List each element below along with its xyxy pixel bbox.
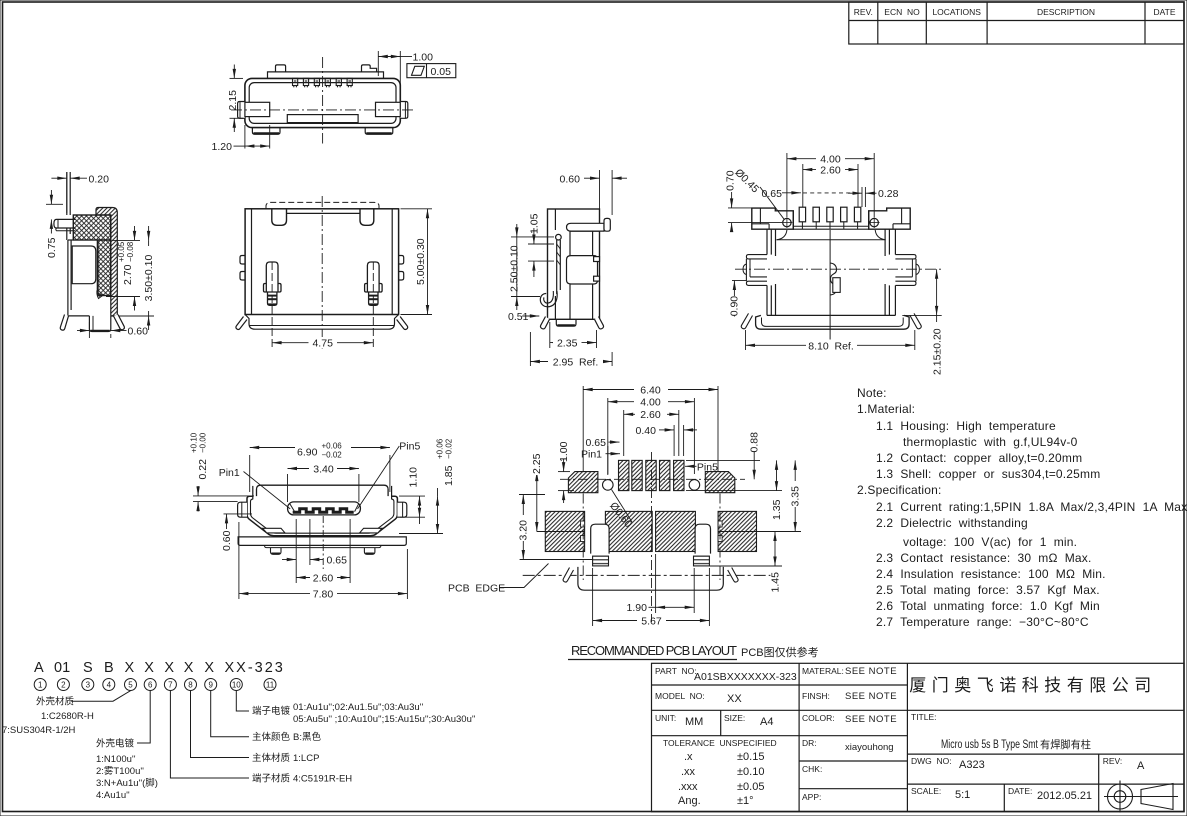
solder tail bbox=[89, 316, 110, 332]
svg-text:1.05: 1.05 bbox=[528, 213, 540, 234]
svg-text:PCB图仅供参考: PCB图仅供参考 bbox=[741, 645, 819, 659]
svg-text:thermoplastic with g.f,UL94v: thermoplastic with g.f,UL94v-0 bbox=[903, 435, 1078, 449]
middle pads bbox=[545, 511, 756, 551]
svg-text:1.90: 1.90 bbox=[627, 602, 648, 614]
dimension 2.25 bbox=[536, 472, 538, 532]
side notch right bbox=[399, 256, 404, 265]
svg-text:主体材质: 主体材质 bbox=[252, 752, 291, 764]
svg-text:SIZE:: SIZE: bbox=[724, 713, 745, 723]
svg-text:0.05: 0.05 bbox=[431, 66, 452, 78]
svg-text:1: 1 bbox=[38, 681, 43, 690]
svg-text:SEE NOTE: SEE NOTE bbox=[845, 666, 897, 677]
svg-text:4.00: 4.00 bbox=[640, 397, 661, 409]
center line view5 bbox=[735, 268, 941, 270]
dimension 1.45 bbox=[709, 532, 782, 567]
svg-text:Ø0.45: Ø0.45 bbox=[732, 167, 761, 196]
svg-text:2.95 Ref.: 2.95 Ref. bbox=[553, 357, 599, 369]
svg-text:1.20: 1.20 bbox=[212, 141, 233, 153]
latch bump bbox=[567, 256, 598, 284]
mid reference lines bbox=[520, 532, 801, 560]
pin stub bbox=[567, 223, 605, 231]
note text bbox=[857, 386, 1187, 629]
dimension 6.90 +0.06/-0.02 bbox=[250, 448, 390, 493]
bottom plate bbox=[767, 314, 895, 316]
flatness tolerance box bbox=[407, 64, 456, 78]
hole left bbox=[603, 480, 614, 491]
svg-text:1.Material:: 1.Material: bbox=[857, 402, 915, 416]
svg-text:2.7 Temperature range: −30°: 2.7 Temperature range: −30°C~80°C bbox=[876, 615, 1089, 629]
svg-text:10: 10 bbox=[232, 681, 241, 690]
shell top plate bbox=[257, 485, 389, 496]
dimension 3.20 bbox=[519, 495, 545, 560]
svg-text:A4: A4 bbox=[760, 716, 773, 728]
svg-text:0.88: 0.88 bbox=[749, 432, 761, 453]
svg-text:3.40: 3.40 bbox=[313, 464, 334, 476]
svg-text:Pin1: Pin1 bbox=[581, 449, 602, 461]
svg-text:Pin5: Pin5 bbox=[399, 441, 420, 453]
dimension 0.65 (view5) bbox=[782, 192, 860, 194]
svg-text:DATE:: DATE: bbox=[1008, 786, 1032, 796]
svg-text:±0.10: ±0.10 bbox=[737, 766, 764, 778]
dimension 3.40 bbox=[288, 469, 359, 503]
left bottom leg bbox=[60, 315, 68, 331]
svg-text:Pin5: Pin5 bbox=[697, 462, 718, 474]
terminal lead bbox=[66, 172, 68, 215]
svg-text:外壳材质: 外壳材质 bbox=[36, 696, 75, 708]
side notch left bbox=[240, 256, 245, 265]
center lines view7 bbox=[560, 452, 745, 622]
dimension 1.05 bbox=[528, 228, 554, 277]
inner right pad bbox=[376, 102, 401, 116]
svg-text:voltage: 100 V(ac) for 1: voltage: 100 V(ac) for 1 min. bbox=[903, 535, 1077, 549]
svg-text:2.5 Total mating force: 3.: 2.5 Total mating force: 3.57 Kgf Max. bbox=[876, 583, 1100, 597]
bottom curl bbox=[540, 291, 557, 307]
svg-text:±0.15: ±0.15 bbox=[737, 751, 764, 763]
left ear bbox=[746, 255, 767, 286]
svg-text:0.90: 0.90 bbox=[729, 296, 741, 317]
svg-text:0.22: 0.22 bbox=[197, 459, 209, 480]
svg-text:A323: A323 bbox=[959, 759, 985, 771]
svg-text:±1°: ±1° bbox=[737, 795, 754, 807]
pin pads (5) bbox=[619, 460, 685, 490]
PCB edge dash-dot bbox=[523, 574, 771, 576]
svg-text:05:Au5u'' ;10:Au10u'';15:Au15u: 05:Au5u'' ;10:Au10u'';15:Au15u'';30:Au30… bbox=[293, 714, 476, 725]
svg-text:Note:: Note: bbox=[857, 386, 887, 400]
top flange band bbox=[752, 208, 794, 229]
dimension 0.40 bbox=[659, 425, 697, 456]
5 contact slots bbox=[799, 207, 861, 229]
body outline bbox=[245, 209, 399, 315]
right ear bbox=[895, 255, 916, 286]
top view body outline bbox=[245, 78, 400, 127]
legend leader lines bbox=[71, 691, 249, 778]
leg phantoms (white brackets) bbox=[591, 524, 609, 553]
svg-text:REV.: REV. bbox=[854, 7, 873, 17]
svg-text:1.85: 1.85 bbox=[443, 465, 455, 486]
svg-text:0.40: 0.40 bbox=[636, 425, 657, 437]
svg-text:PCB EDGE: PCB EDGE bbox=[448, 583, 505, 595]
svg-text:SEE NOTE: SEE NOTE bbox=[845, 714, 897, 725]
dimension 0.75 bbox=[46, 190, 63, 234]
bottom plate bbox=[245, 315, 399, 330]
svg-text:外壳电镀: 外壳电镀 bbox=[96, 738, 135, 750]
svg-text:6: 6 bbox=[148, 681, 153, 690]
svg-text:COLOR:: COLOR: bbox=[802, 713, 835, 723]
corner leg right bbox=[397, 317, 408, 330]
svg-text:MM: MM bbox=[685, 716, 703, 728]
top tab right bbox=[362, 65, 377, 72]
contact spring line bbox=[96, 240, 98, 289]
dimension 2.15 bbox=[230, 65, 244, 133]
svg-text:端子电镀: 端子电镀 bbox=[252, 705, 291, 717]
svg-text:.x: .x bbox=[684, 751, 693, 763]
notches on outer pads bbox=[581, 521, 723, 542]
dimension 0.20 bbox=[51, 172, 87, 213]
dimension 2.70 +0.05 -0.08 bbox=[106, 226, 140, 311]
big pad left bbox=[568, 472, 598, 493]
svg-text:XX: XX bbox=[727, 693, 742, 705]
contact right bbox=[365, 262, 383, 305]
dimension 6.40 bbox=[583, 386, 718, 471]
dimension 0.90 bbox=[732, 281, 746, 317]
dimension 3.50±0.10 bbox=[119, 226, 154, 330]
dimension 2.35 bbox=[550, 322, 597, 348]
bottom peg left bbox=[252, 128, 280, 135]
svg-text:A: A bbox=[1137, 760, 1145, 772]
dimension 0.22 +0.10/-0.00 bbox=[193, 486, 254, 512]
dimension 2.15±0.20 bbox=[902, 269, 941, 322]
svg-text:MODEL NO:: MODEL NO: bbox=[655, 691, 705, 701]
bottom tail bbox=[556, 319, 576, 326]
dimension 4.00 (view7) bbox=[608, 398, 695, 474]
svg-text:4.75: 4.75 bbox=[312, 338, 333, 350]
svg-text:+0.06: +0.06 bbox=[436, 438, 445, 459]
legend labels bbox=[2, 696, 476, 802]
svg-text:+0.05: +0.05 bbox=[117, 241, 126, 262]
svg-text:主体颜色: 主体颜色 bbox=[252, 731, 291, 743]
svg-text:DESCRIPTION: DESCRIPTION bbox=[1037, 7, 1095, 17]
svg-text:5:1: 5:1 bbox=[955, 789, 970, 801]
dimension 7.80 bbox=[239, 522, 408, 599]
housing cross-hatched section bbox=[73, 215, 111, 296]
svg-text:1:LCP: 1:LCP bbox=[293, 753, 319, 764]
left mounting ear bbox=[238, 102, 245, 119]
svg-text:+0.06: +0.06 bbox=[322, 442, 343, 451]
svg-text:A01SBXXXXXXX-323: A01SBXXXXXXX-323 bbox=[34, 660, 285, 676]
right bottom leg bbox=[114, 315, 125, 330]
svg-text:01:Au1u'';02:Au1.5u'';03:Au3u': 01:Au1u'';02:Au1.5u'';03:Au3u'' bbox=[293, 702, 423, 713]
svg-text:2.25: 2.25 bbox=[531, 453, 543, 474]
svg-text:4:C5191R-EH: 4:C5191R-EH bbox=[293, 774, 352, 785]
svg-text:2.6 Total unmating force:: 2.6 Total unmating force: 1.0 Kgf Min bbox=[876, 599, 1100, 613]
svg-text:6.40: 6.40 bbox=[640, 384, 661, 396]
svg-text:SCALE:: SCALE: bbox=[911, 786, 941, 796]
svg-text:有焊脚有柱: 有焊脚有柱 bbox=[1040, 738, 1091, 751]
foot right bbox=[364, 548, 375, 555]
svg-text:A01SBXXXXXXX-323: A01SBXXXXXXX-323 bbox=[694, 671, 797, 683]
svg-text:SEE NOTE: SEE NOTE bbox=[845, 691, 897, 702]
dimension 2.60 (view6) bbox=[296, 519, 350, 583]
dimension 0.65 (view6) bbox=[282, 519, 324, 583]
svg-text:7: 7 bbox=[168, 681, 173, 690]
svg-text:0.65: 0.65 bbox=[586, 437, 607, 449]
svg-text:xiayouhong: xiayouhong bbox=[845, 742, 894, 753]
svg-text:3.20: 3.20 bbox=[518, 520, 530, 541]
phantom leg right bbox=[728, 568, 738, 583]
leader Ø0.45 bbox=[760, 187, 785, 220]
dimension 0.60 top (view4) bbox=[584, 170, 627, 219]
side ear stub bbox=[54, 219, 76, 228]
title block bbox=[652, 663, 1185, 811]
connector phantom U outline bbox=[578, 567, 723, 590]
circled item numbers 1-11 bbox=[34, 679, 46, 691]
dimension 1.85 +0.06/-0.02 bbox=[399, 488, 443, 534]
svg-text:CHK:: CHK: bbox=[802, 764, 822, 774]
svg-text:0.60: 0.60 bbox=[221, 530, 233, 551]
dimension 0.70 bbox=[728, 192, 782, 229]
svg-text:0.60: 0.60 bbox=[560, 174, 581, 186]
screw bosses bbox=[783, 218, 791, 226]
svg-text:Ang.: Ang. bbox=[678, 795, 701, 807]
svg-text:APP:: APP: bbox=[802, 792, 821, 802]
svg-text:8: 8 bbox=[188, 681, 193, 690]
svg-text:2.1 Current rating:1,5PIN 1: 2.1 Current rating:1,5PIN 1.8A Max/2,3,4… bbox=[876, 500, 1187, 514]
svg-text:5: 5 bbox=[128, 681, 133, 690]
svg-text:4: 4 bbox=[107, 681, 112, 690]
top plateau bbox=[268, 72, 384, 79]
svg-text:7.80: 7.80 bbox=[313, 588, 334, 600]
dimension 0.60 (view6) bbox=[224, 514, 253, 529]
svg-text:REV:: REV: bbox=[1103, 756, 1123, 766]
tongue with contacts bbox=[288, 502, 361, 515]
dimension 5.00±0.30 bbox=[401, 209, 433, 315]
svg-text:ECN NO: ECN NO bbox=[884, 7, 920, 17]
svg-text:−0.02: −0.02 bbox=[322, 451, 343, 460]
dimension 1.00 bbox=[378, 51, 412, 92]
svg-text:11: 11 bbox=[266, 681, 275, 690]
svg-text:±0.05: ±0.05 bbox=[737, 781, 764, 793]
svg-text:1.3 Shell: copper or sus30: 1.3 Shell: copper or sus304,t=0.25mm bbox=[876, 467, 1100, 481]
svg-text:2: 2 bbox=[61, 681, 66, 690]
svg-text:3.35: 3.35 bbox=[790, 486, 802, 507]
chamfer pads bbox=[263, 528, 286, 533]
svg-text:3.50±0.10: 3.50±0.10 bbox=[143, 255, 155, 302]
svg-text:0.65: 0.65 bbox=[327, 555, 348, 567]
dimension 2.50±0.10 bbox=[511, 224, 554, 310]
contact bumps bbox=[293, 78, 353, 87]
svg-text:FINSH:: FINSH: bbox=[802, 691, 830, 701]
svg-text:.xxx: .xxx bbox=[678, 781, 698, 793]
body outline bbox=[548, 209, 600, 319]
svg-text:1.45: 1.45 bbox=[769, 572, 781, 593]
leg right bbox=[595, 317, 604, 329]
dimension 1.90 bbox=[649, 554, 695, 613]
dimension 0.60 (view2) bbox=[77, 322, 127, 338]
right mounting ear bbox=[400, 102, 408, 119]
svg-text:0.28: 0.28 bbox=[878, 188, 899, 200]
dimension 3.35 bbox=[794, 460, 796, 531]
body front wall bbox=[67, 240, 69, 316]
body bottom bbox=[68, 315, 90, 317]
svg-text:MATERAL:: MATERAL: bbox=[802, 666, 844, 676]
shell outer outline bbox=[247, 496, 397, 536]
svg-text:2:雾T100u'': 2:雾T100u'' bbox=[96, 766, 144, 777]
svg-text:端子材质: 端子材质 bbox=[252, 773, 291, 785]
contact slot bbox=[556, 240, 558, 294]
svg-text:1.2 Contact: copper alloy,t: 1.2 Contact: copper alloy,t=0.20mm bbox=[876, 451, 1082, 465]
center lines view1 bbox=[231, 57, 414, 144]
contact (white) bbox=[72, 246, 96, 284]
latch cutout left bbox=[272, 209, 287, 226]
base plate bbox=[238, 537, 406, 546]
shell section (diagonal hatch) bbox=[96, 208, 117, 317]
svg-text:B:黑色: B:黑色 bbox=[293, 731, 321, 743]
svg-text:Pin1: Pin1 bbox=[219, 467, 240, 479]
svg-text:2.Specification:: 2.Specification: bbox=[857, 483, 942, 497]
svg-text:0.75: 0.75 bbox=[46, 237, 58, 258]
svg-text:2.70: 2.70 bbox=[122, 264, 134, 285]
svg-text:RECOMMANDED PCB LAYOUT: RECOMMANDED PCB LAYOUT bbox=[571, 643, 737, 658]
svg-text:0.20: 0.20 bbox=[89, 174, 110, 186]
leg left bbox=[741, 313, 752, 328]
hidden top arc (dashed) bbox=[266, 202, 379, 208]
dimension 4.00 (view5) bbox=[787, 153, 874, 217]
inner left pad bbox=[245, 102, 270, 116]
dimension 2.60 (view7) bbox=[624, 410, 679, 456]
svg-text:5.00±0.30: 5.00±0.30 bbox=[415, 238, 427, 285]
svg-text:−0.00: −0.00 bbox=[199, 432, 208, 453]
svg-text:9: 9 bbox=[208, 681, 213, 690]
shoulder necks bbox=[777, 230, 787, 240]
right side tab bbox=[397, 502, 406, 517]
svg-text:1.10: 1.10 bbox=[408, 467, 420, 488]
svg-text:−0.02: −0.02 bbox=[445, 438, 454, 459]
svg-text:1.1 Housing: High temperatu: 1.1 Housing: High temperature bbox=[876, 419, 1056, 433]
latch cutout right bbox=[360, 209, 374, 226]
top tab left bbox=[276, 65, 286, 72]
part number legend bbox=[34, 660, 285, 676]
svg-text:DWG NO:: DWG NO: bbox=[911, 756, 952, 766]
svg-text:2.60: 2.60 bbox=[640, 409, 661, 421]
svg-text:DR:: DR: bbox=[802, 738, 817, 748]
svg-text:DATE: DATE bbox=[1153, 7, 1175, 17]
svg-text:TITLE:: TITLE: bbox=[911, 712, 937, 722]
svg-text:−0.08: −0.08 bbox=[126, 241, 135, 262]
corner leg left bbox=[236, 317, 247, 330]
svg-text:1.00: 1.00 bbox=[413, 52, 434, 64]
svg-text:2.35: 2.35 bbox=[557, 338, 578, 350]
svg-text:LOCATIONS: LOCATIONS bbox=[932, 7, 981, 17]
contact block bbox=[793, 211, 868, 229]
dimension 8.10 Ref. bbox=[746, 330, 915, 350]
center snap feature bbox=[829, 230, 831, 344]
center strip bbox=[287, 115, 358, 123]
dimension 0.88 bbox=[686, 452, 760, 479]
big pad right bbox=[705, 472, 735, 493]
svg-text:7:SUS304R-1/2H: 7:SUS304R-1/2H bbox=[2, 725, 76, 736]
dimension 0.28 (view5) bbox=[848, 187, 877, 207]
svg-text:3:N+Au1u''(脚): 3:N+Au1u''(脚) bbox=[96, 778, 158, 789]
svg-text:2.3 Contact resistance: 30: 2.3 Contact resistance: 30 mΩ Max. bbox=[876, 551, 1092, 565]
svg-text:2.15±0.20: 2.15±0.20 bbox=[931, 328, 943, 375]
dimension 2.95 Ref. bbox=[530, 332, 612, 366]
dimension 2.60 (view5) bbox=[803, 164, 858, 207]
svg-text:2.60: 2.60 bbox=[820, 165, 841, 177]
bottom peg right bbox=[365, 128, 393, 135]
center lines view3 bbox=[272, 196, 373, 349]
shell inner outline bbox=[251, 499, 394, 533]
svg-text:5.67: 5.67 bbox=[641, 616, 662, 628]
contact left bbox=[264, 262, 282, 305]
svg-text:2.2 Dielectric withstanding: 2.2 Dielectric withstanding bbox=[876, 516, 1028, 530]
svg-text:2012.05.21: 2012.05.21 bbox=[1037, 790, 1092, 802]
left side tab bbox=[238, 502, 247, 517]
svg-text:2.15: 2.15 bbox=[227, 90, 239, 111]
svg-text:8.10 Ref.: 8.10 Ref. bbox=[808, 340, 854, 352]
dimension 5.67 bbox=[593, 568, 710, 626]
hole right bbox=[689, 480, 700, 491]
svg-text:PART NO:: PART NO: bbox=[655, 666, 697, 676]
leader 0.51 bbox=[522, 315, 539, 317]
leg right bbox=[910, 313, 921, 328]
svg-text:3: 3 bbox=[86, 681, 91, 690]
svg-text:0.70: 0.70 bbox=[725, 170, 737, 191]
body sides bbox=[766, 229, 768, 255]
third angle projection symbol bbox=[1104, 781, 1178, 813]
svg-text:1:C2680R-H: 1:C2680R-H bbox=[41, 711, 94, 722]
leader Ø0.60 bbox=[612, 490, 633, 523]
svg-text:2.60: 2.60 bbox=[313, 572, 334, 584]
foot left bbox=[271, 548, 282, 555]
svg-text:Micro usb 5s B Type Smt: Micro usb 5s B Type Smt bbox=[941, 739, 1039, 751]
svg-text:2.4 Insulation resistance:: 2.4 Insulation resistance: 100 MΩ Min. bbox=[876, 567, 1106, 581]
revision table top right bbox=[849, 2, 1184, 44]
svg-text:.xx: .xx bbox=[681, 766, 696, 778]
svg-text:1:N100u'': 1:N100u'' bbox=[96, 754, 136, 765]
svg-text:4:Au1u'': 4:Au1u'' bbox=[96, 790, 130, 801]
dimension 4.75 bbox=[272, 342, 373, 344]
svg-text:UNIT:: UNIT: bbox=[655, 713, 676, 723]
leg left bbox=[540, 317, 549, 329]
svg-text:6.90: 6.90 bbox=[297, 447, 318, 459]
dimension 1.20 bbox=[234, 125, 270, 149]
dimension 1.00 (view7) bbox=[558, 459, 574, 503]
svg-text:1.00: 1.00 bbox=[558, 441, 570, 462]
solder tab pads bbox=[593, 556, 609, 566]
dimension 1.10 bbox=[399, 496, 425, 524]
svg-text:1.35: 1.35 bbox=[771, 499, 783, 520]
svg-text:+0.10: +0.10 bbox=[190, 432, 199, 453]
svg-text:TOLERANCE UNSPECIFIED: TOLERANCE UNSPECIFIED bbox=[663, 738, 777, 748]
dimension 1.35 bbox=[686, 460, 782, 490]
svg-text:0.51: 0.51 bbox=[508, 311, 529, 323]
svg-text:0.60: 0.60 bbox=[128, 326, 149, 338]
svg-text:厦门奥飞诺科技有限公司: 厦门奥飞诺科技有限公司 bbox=[909, 676, 1157, 695]
phantom leg left bbox=[563, 568, 573, 583]
svg-text:2.50±0.10: 2.50±0.10 bbox=[509, 245, 521, 292]
